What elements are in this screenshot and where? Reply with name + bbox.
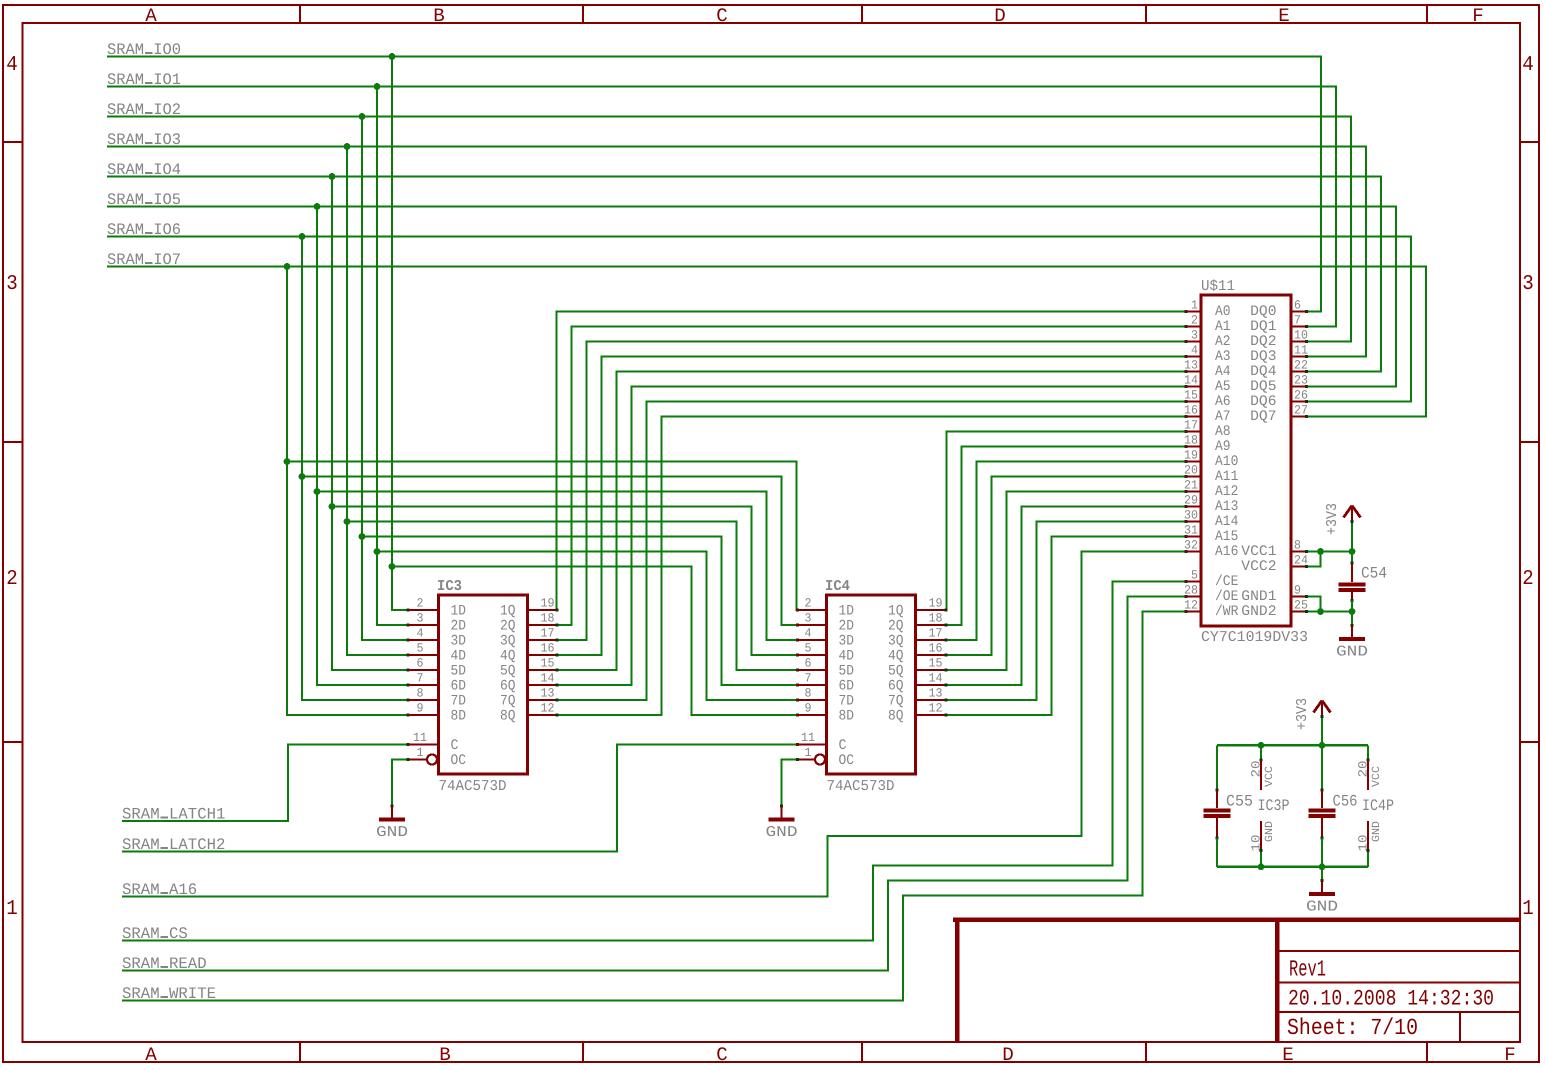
- svg-text:4D: 4D: [839, 649, 855, 665]
- svg-text:8: 8: [805, 687, 812, 701]
- svg-text:DQ1: DQ1: [1250, 319, 1276, 335]
- svg-text:8: 8: [1294, 539, 1301, 553]
- svg-text:3: 3: [417, 612, 424, 626]
- svg-text:GND: GND: [1306, 899, 1338, 916]
- svg-text:2: 2: [6, 568, 18, 591]
- svg-text:17: 17: [1184, 419, 1198, 433]
- svg-text:IC4P: IC4P: [1362, 797, 1394, 815]
- svg-text:2: 2: [1191, 314, 1198, 328]
- svg-text:29: 29: [1184, 494, 1198, 508]
- svg-text:A0: A0: [1215, 304, 1231, 320]
- svg-text:9: 9: [1294, 584, 1301, 598]
- svg-text:A10: A10: [1215, 454, 1238, 470]
- svg-text:DQ3: DQ3: [1250, 349, 1276, 365]
- svg-text:A3: A3: [1215, 349, 1231, 365]
- svg-text:11: 11: [801, 731, 815, 745]
- svg-text:GND: GND: [1264, 821, 1276, 842]
- svg-text:SRAM IO4: SRAM IO4: [107, 161, 181, 179]
- svg-text:7Q: 7Q: [888, 694, 904, 710]
- svg-text:GND: GND: [766, 824, 798, 841]
- svg-text:GND1: GND1: [1241, 589, 1276, 605]
- svg-text:B: B: [439, 1044, 451, 1065]
- svg-text:2Q: 2Q: [888, 619, 904, 635]
- svg-text:32: 32: [1184, 539, 1198, 553]
- svg-text:IC4: IC4: [825, 578, 850, 595]
- svg-text:7: 7: [805, 672, 812, 686]
- svg-text:19: 19: [929, 597, 943, 611]
- svg-text:A9: A9: [1215, 439, 1231, 455]
- svg-text:DQ0: DQ0: [1250, 304, 1276, 320]
- svg-text:16: 16: [1184, 404, 1198, 418]
- svg-text:A6: A6: [1215, 394, 1231, 410]
- svg-text:A16: A16: [1215, 544, 1238, 560]
- svg-text:IC3: IC3: [437, 578, 462, 595]
- svg-text:7D: 7D: [451, 694, 467, 710]
- svg-text:22: 22: [1294, 359, 1308, 373]
- svg-text:12: 12: [929, 702, 943, 716]
- svg-text:1: 1: [417, 746, 424, 760]
- svg-text:8D: 8D: [451, 709, 467, 725]
- svg-text:10: 10: [1294, 329, 1308, 343]
- svg-text:9: 9: [805, 702, 812, 716]
- svg-text:E: E: [1278, 5, 1290, 27]
- svg-text:20: 20: [1357, 761, 1371, 778]
- svg-text:DQ4: DQ4: [1250, 364, 1276, 380]
- svg-text:DQ6: DQ6: [1250, 394, 1276, 410]
- svg-text:C: C: [716, 1044, 728, 1065]
- svg-text:4: 4: [417, 627, 424, 641]
- svg-text:IC3P: IC3P: [1258, 797, 1290, 815]
- svg-text:A4: A4: [1215, 364, 1231, 380]
- svg-text:19: 19: [541, 597, 555, 611]
- svg-text:18: 18: [541, 612, 555, 626]
- svg-text:5D: 5D: [839, 664, 855, 680]
- svg-text:3Q: 3Q: [888, 634, 904, 650]
- svg-text:1Q: 1Q: [888, 604, 904, 620]
- svg-text:1: 1: [1522, 898, 1534, 921]
- svg-text:7: 7: [1294, 314, 1301, 328]
- svg-text:6Q: 6Q: [500, 679, 516, 695]
- svg-text:6: 6: [1294, 299, 1301, 313]
- svg-text:SRAM IO2: SRAM IO2: [107, 101, 181, 119]
- svg-text:A: A: [145, 5, 157, 27]
- svg-text:C: C: [451, 738, 459, 754]
- svg-text:2D: 2D: [451, 619, 467, 635]
- svg-text:15: 15: [541, 657, 555, 671]
- svg-text:7D: 7D: [839, 694, 855, 710]
- svg-text:3D: 3D: [451, 634, 467, 650]
- svg-text:SRAM IO0: SRAM IO0: [107, 41, 181, 59]
- svg-text:13: 13: [929, 687, 943, 701]
- svg-text:A: A: [145, 1044, 157, 1065]
- svg-text:1D: 1D: [839, 604, 855, 620]
- svg-text:6: 6: [417, 657, 424, 671]
- svg-text:21: 21: [1184, 479, 1198, 493]
- svg-text:SRAM IO6: SRAM IO6: [107, 221, 181, 239]
- svg-text:9: 9: [417, 702, 424, 716]
- svg-text:GND: GND: [1371, 821, 1383, 842]
- svg-text:SRAM IO7: SRAM IO7: [107, 251, 181, 269]
- svg-text:15: 15: [929, 657, 943, 671]
- svg-text:4: 4: [805, 627, 812, 641]
- svg-text:7: 7: [417, 672, 424, 686]
- svg-text:1: 1: [6, 898, 18, 921]
- svg-text:CY7C1019DV33: CY7C1019DV33: [1201, 629, 1308, 646]
- svg-text:C: C: [716, 5, 728, 27]
- svg-text:3Q: 3Q: [500, 634, 516, 650]
- svg-text:31: 31: [1184, 524, 1198, 538]
- svg-text:VCC: VCC: [1371, 766, 1383, 787]
- svg-text:3: 3: [805, 612, 812, 626]
- svg-text:14: 14: [1184, 374, 1198, 388]
- svg-text:F: F: [1504, 1044, 1516, 1065]
- svg-text:5: 5: [805, 642, 812, 656]
- svg-text:5Q: 5Q: [888, 664, 904, 680]
- svg-text:4Q: 4Q: [500, 649, 516, 665]
- svg-text:VCC1: VCC1: [1241, 544, 1276, 560]
- svg-text:19: 19: [1184, 449, 1198, 463]
- svg-text:A13: A13: [1215, 499, 1238, 515]
- svg-text:6: 6: [805, 657, 812, 671]
- svg-text:8: 8: [417, 687, 424, 701]
- svg-text:A11: A11: [1215, 469, 1238, 485]
- svg-text:A12: A12: [1215, 484, 1238, 500]
- svg-text:17: 17: [929, 627, 943, 641]
- svg-text:74AC573D: 74AC573D: [439, 778, 507, 795]
- svg-text:20.10.2008 14:32:30: 20.10.2008 14:32:30: [1288, 987, 1494, 1012]
- svg-text:C54: C54: [1361, 565, 1387, 583]
- svg-text:A5: A5: [1215, 379, 1231, 395]
- svg-text:2: 2: [805, 597, 812, 611]
- svg-text:8D: 8D: [839, 709, 855, 725]
- svg-text:E: E: [1282, 1044, 1294, 1065]
- svg-text:VCC2: VCC2: [1241, 559, 1276, 575]
- svg-text:C: C: [839, 738, 847, 754]
- svg-text:30: 30: [1184, 509, 1198, 523]
- svg-text:D: D: [1002, 1044, 1014, 1065]
- svg-text:/WR: /WR: [1215, 604, 1239, 620]
- svg-text:15: 15: [1184, 389, 1198, 403]
- svg-text:12: 12: [541, 702, 555, 716]
- svg-text:SRAM IO3: SRAM IO3: [107, 131, 181, 149]
- svg-text:GND2: GND2: [1241, 604, 1276, 620]
- svg-text:DQ2: DQ2: [1250, 334, 1276, 350]
- svg-text:12: 12: [1184, 599, 1198, 613]
- svg-text:2: 2: [1522, 568, 1534, 591]
- svg-text:B: B: [433, 5, 445, 27]
- svg-text:6D: 6D: [839, 679, 855, 695]
- svg-text:OC: OC: [451, 753, 467, 769]
- svg-text:13: 13: [1184, 359, 1198, 373]
- svg-text:13: 13: [541, 687, 555, 701]
- svg-text:+3V3: +3V3: [1294, 698, 1311, 730]
- svg-text:C55: C55: [1226, 793, 1253, 811]
- svg-text:3D: 3D: [839, 634, 855, 650]
- svg-text:14: 14: [541, 672, 555, 686]
- svg-text:5: 5: [417, 642, 424, 656]
- svg-text:3: 3: [1191, 329, 1198, 343]
- svg-text:4: 4: [1522, 54, 1534, 77]
- svg-text:16: 16: [929, 642, 943, 656]
- svg-text:/OE: /OE: [1215, 589, 1238, 605]
- svg-text:DQ7: DQ7: [1250, 409, 1276, 425]
- svg-text:GND: GND: [376, 824, 408, 841]
- svg-text:A7: A7: [1215, 409, 1231, 425]
- svg-text:4D: 4D: [451, 649, 467, 665]
- svg-text:5Q: 5Q: [500, 664, 516, 680]
- svg-text:20: 20: [1184, 464, 1198, 478]
- svg-text:3: 3: [6, 273, 18, 296]
- svg-text:+3V3: +3V3: [1324, 503, 1341, 535]
- svg-text:A15: A15: [1215, 529, 1238, 545]
- svg-text:6Q: 6Q: [888, 679, 904, 695]
- svg-text:27: 27: [1294, 404, 1308, 418]
- svg-text:28: 28: [1184, 584, 1198, 598]
- svg-text:18: 18: [929, 612, 943, 626]
- svg-text:8Q: 8Q: [888, 709, 904, 725]
- svg-text:4: 4: [6, 54, 18, 77]
- svg-text:1D: 1D: [451, 604, 467, 620]
- svg-text:10: 10: [1250, 835, 1264, 852]
- svg-text:C56: C56: [1333, 793, 1358, 811]
- svg-text:11: 11: [1294, 344, 1308, 358]
- svg-text:GND: GND: [1336, 644, 1368, 661]
- svg-text:5D: 5D: [451, 664, 467, 680]
- svg-text:6D: 6D: [451, 679, 467, 695]
- svg-text:11: 11: [413, 731, 427, 745]
- svg-text:14: 14: [929, 672, 943, 686]
- svg-text:7Q: 7Q: [500, 694, 516, 710]
- svg-text:1: 1: [805, 746, 812, 760]
- svg-text:23: 23: [1294, 374, 1308, 388]
- svg-text:2: 2: [417, 597, 424, 611]
- svg-text:Rev1: Rev1: [1289, 957, 1326, 983]
- svg-text:26: 26: [1294, 389, 1308, 403]
- svg-text:SRAM IO5: SRAM IO5: [107, 191, 181, 209]
- svg-text:U$11: U$11: [1201, 278, 1235, 295]
- svg-text:A8: A8: [1215, 424, 1231, 440]
- svg-text:1Q: 1Q: [500, 604, 516, 620]
- svg-text:2Q: 2Q: [500, 619, 516, 635]
- svg-text:A14: A14: [1215, 514, 1238, 530]
- svg-text:Sheet: 7/10: Sheet: 7/10: [1287, 1015, 1418, 1041]
- svg-text:DQ5: DQ5: [1250, 379, 1276, 395]
- svg-text:A2: A2: [1215, 334, 1231, 350]
- svg-text:2D: 2D: [839, 619, 855, 635]
- svg-text:3: 3: [1522, 273, 1534, 296]
- svg-text:SRAM IO1: SRAM IO1: [107, 71, 181, 89]
- svg-text:VCC: VCC: [1264, 766, 1276, 787]
- svg-text:4: 4: [1191, 344, 1198, 358]
- svg-text:/CE: /CE: [1215, 574, 1238, 590]
- svg-text:F: F: [1472, 5, 1484, 27]
- svg-text:17: 17: [541, 627, 555, 641]
- svg-text:16: 16: [541, 642, 555, 656]
- svg-text:4Q: 4Q: [888, 649, 904, 665]
- svg-text:8Q: 8Q: [500, 709, 516, 725]
- svg-text:A1: A1: [1215, 319, 1231, 335]
- svg-text:74AC573D: 74AC573D: [827, 778, 895, 795]
- svg-text:D: D: [994, 5, 1006, 27]
- svg-text:20: 20: [1250, 761, 1264, 778]
- svg-text:10: 10: [1357, 835, 1371, 852]
- svg-text:5: 5: [1191, 569, 1198, 583]
- svg-text:OC: OC: [839, 753, 855, 769]
- svg-text:1: 1: [1191, 299, 1198, 313]
- svg-text:18: 18: [1184, 434, 1198, 448]
